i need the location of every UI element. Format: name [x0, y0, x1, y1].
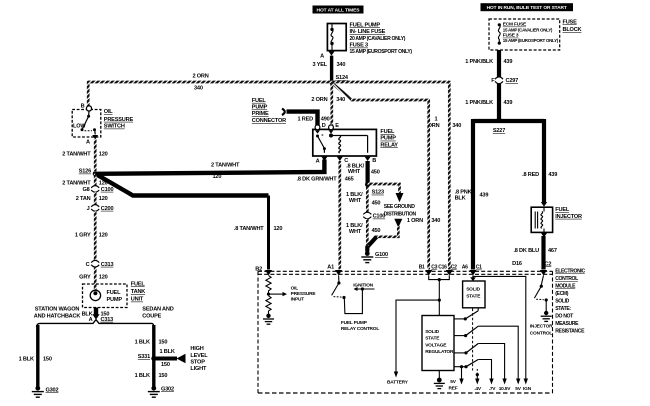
fuel injector terminal top: [541, 202, 547, 207]
fuse block dashed box: [489, 19, 560, 50]
svg-text:PUMP: PUMP: [380, 136, 396, 142]
svg-text:120: 120: [99, 196, 108, 202]
relay pin C: [337, 157, 348, 164]
fuel pump prime connector symbol: [252, 98, 286, 124]
svg-text:PUMP: PUMP: [252, 105, 268, 111]
ECM dashed border: [258, 271, 553, 393]
svg-text:CONTROL: CONTROL: [530, 331, 553, 337]
svg-text:450: 450: [371, 170, 380, 176]
ground G100: [361, 251, 388, 263]
svg-text:1 ORN: 1 ORN: [407, 218, 423, 224]
svg-text:PRIME: PRIME: [252, 111, 269, 117]
pin A of in-line fuse: [320, 51, 335, 59]
svg-text:S331: S331: [138, 354, 150, 360]
svg-text:C2: C2: [451, 264, 457, 270]
fuel injector: [531, 207, 552, 232]
svg-text:439: 439: [480, 192, 489, 198]
svg-text:OIL: OIL: [291, 285, 299, 291]
splice S124: [329, 75, 348, 85]
ECM pin B1/C16: [419, 264, 447, 275]
svg-text:COUPE: COUPE: [142, 313, 161, 319]
relay pin B: [365, 157, 377, 164]
svg-text:RELAY CONTROL: RELAY CONTROL: [341, 326, 379, 332]
svg-text:1 RED: 1 RED: [298, 117, 314, 123]
svg-text:C200: C200: [101, 206, 114, 212]
oil pressure input arrow and label: [269, 285, 317, 302]
svg-text:A: A: [86, 140, 90, 146]
svg-text:BATTERY: BATTERY: [387, 379, 409, 385]
fuel pump relay control label: [341, 320, 379, 332]
wire 2 ORN 340 S124 down to relay pin E: [311, 82, 345, 127]
svg-text:FUEL PUMP: FUEL PUMP: [341, 320, 368, 326]
svg-text:VOLTAGE: VOLTAGE: [425, 342, 447, 348]
svg-text:.8 RED: .8 RED: [522, 172, 539, 178]
svg-text:LIGHT: LIGHT: [190, 366, 207, 372]
wire 1 PNK/BLK 439 C297 to S227: [465, 84, 512, 121]
svg-text:2 ORN: 2 ORN: [193, 74, 209, 80]
fuel pump relay box: [313, 129, 377, 156]
fuse F1 labels: [350, 22, 413, 55]
ECM bottom output arrows and voltage labels: [474, 379, 531, 393]
svg-text:G100: G100: [375, 252, 388, 258]
svg-text:B: B: [372, 158, 376, 164]
svg-text:A: A: [89, 317, 93, 323]
svg-text:STATION WAGON: STATION WAGON: [35, 306, 80, 312]
svg-text:TANK: TANK: [131, 289, 145, 295]
svg-text:WHT: WHT: [349, 198, 362, 204]
ECM fuse labels: [503, 22, 559, 43]
connector C313 (C): [86, 260, 114, 267]
svg-text:ELECTRONIC: ELECTRONIC: [555, 269, 585, 275]
wire 2 TAN/WHT 120 S126 to C100: [62, 174, 107, 187]
svg-text:S124: S124: [336, 75, 349, 81]
wire 1 RED 490 prime connector to relay pin D: [287, 112, 330, 126]
ECM pin B2: [255, 266, 272, 275]
ECM pin C2: [446, 264, 457, 275]
relay internal coil E to B: [330, 134, 368, 153]
svg-text:WHT: WHT: [348, 169, 361, 175]
see ground distribution label: [384, 204, 417, 217]
wire .8 TAN/WHT S126 diagonal to ECM pin B2: [95, 174, 282, 270]
svg-text:467: 467: [548, 248, 557, 254]
svg-text:LOW: LOW: [73, 123, 86, 129]
relay internal switch D to A: [316, 135, 326, 153]
svg-text:S123: S123: [372, 190, 384, 196]
ground G302 left: [32, 386, 59, 397]
svg-text:IGNITION: IGNITION: [353, 283, 373, 289]
svg-text:465: 465: [345, 176, 354, 182]
wire 2 TAN 120 C100 to C200: [76, 192, 108, 205]
svg-text:D: D: [322, 123, 326, 129]
svg-text:FUEL: FUEL: [252, 98, 267, 104]
svg-text:.4V: .4V: [474, 386, 482, 392]
injector control label: [530, 323, 553, 336]
svg-text:1 BLK: 1 BLK: [135, 340, 150, 346]
svg-text:S227: S227: [493, 128, 505, 134]
svg-text:INPUT: INPUT: [291, 296, 305, 302]
ground distribution return arrow to G100: [367, 219, 402, 252]
svg-text:PUMP: PUMP: [107, 297, 123, 303]
svg-text:A1: A1: [327, 265, 334, 271]
regulator output switch 2: [454, 326, 518, 379]
splice S123: [365, 182, 384, 196]
svg-text:DISTRIBUTION: DISTRIBUTION: [384, 211, 417, 217]
solid state voltage regulator box: [422, 316, 454, 371]
svg-text:C100: C100: [101, 187, 114, 193]
svg-text:FUEL: FUEL: [380, 129, 395, 135]
svg-text:1 BLK: 1 BLK: [19, 357, 34, 363]
svg-text:HIGH: HIGH: [190, 346, 203, 352]
svg-text:439: 439: [504, 100, 513, 106]
svg-text:MODULE: MODULE: [555, 284, 576, 290]
wire 2 TAN/WHT 120 labels on S126 to relay A run: [211, 162, 240, 180]
oil pressure switch dashed box: [72, 110, 101, 138]
svg-text:2 TAN/WHT: 2 TAN/WHT: [62, 152, 91, 158]
svg-text:C313: C313: [101, 317, 114, 323]
svg-text:J: J: [87, 206, 90, 212]
regulator output switch 3: [454, 344, 505, 380]
svg-text:C16: C16: [438, 264, 447, 270]
svg-text:CONTROL: CONTROL: [555, 276, 578, 282]
svg-text:15 AMP (EUROSPORT ONLY): 15 AMP (EUROSPORT ONLY): [350, 49, 413, 55]
wire 1 BLK 150 S331 to high level stop light: [154, 349, 186, 368]
ECM internal ground below B2 resistor: [263, 314, 274, 325]
svg-text:10.5V: 10.5V: [499, 386, 512, 392]
wire 1 BLK 150 S331 to G302: [135, 373, 168, 379]
svg-text:LEVEL: LEVEL: [190, 353, 208, 359]
svg-text:B1: B1: [419, 265, 425, 271]
connector C100 (G8): [82, 186, 113, 193]
fuel injector terminal bottom: [541, 233, 547, 238]
svg-text:G302: G302: [161, 386, 174, 392]
svg-text:1 PNK/BLK: 1 PNK/BLK: [465, 100, 493, 106]
ECM right side label: [555, 269, 585, 335]
svg-text:IN- LINE FUSE: IN- LINE FUSE: [350, 29, 386, 35]
relay pin D: [315, 123, 326, 134]
svg-text:BLOCK: BLOCK: [563, 27, 582, 33]
ECM fuse symbol inside fuse block: [498, 23, 501, 45]
svg-text:PRESSURE: PRESSURE: [291, 291, 317, 297]
svg-text:FUEL: FUEL: [131, 281, 146, 287]
svg-text:2 TAN/WHT: 2 TAN/WHT: [211, 162, 240, 168]
svg-text:FUEL PUMP: FUEL PUMP: [350, 22, 381, 28]
svg-text:SWITCH: SWITCH: [104, 124, 125, 130]
svg-text:C1: C1: [476, 265, 482, 271]
svg-text:SEDAN AND: SEDAN AND: [142, 306, 173, 312]
svg-text:.8 DK GRN/WHT: .8 DK GRN/WHT: [297, 176, 338, 182]
svg-text:OIL: OIL: [104, 109, 114, 115]
connector C297: [491, 77, 518, 84]
splice S126: [79, 169, 98, 177]
svg-text:RELAY: RELAY: [380, 142, 398, 148]
wire .8 DK BLU 467 injector to ECM pin D16: [513, 236, 556, 270]
header label HOT IN RUN BULB TEST OR START: [481, 3, 574, 11]
svg-text:GRY: GRY: [79, 274, 91, 280]
svg-text:C313: C313: [101, 262, 114, 268]
svg-text:120: 120: [274, 226, 283, 232]
svg-text:SEE GROUND: SEE GROUND: [384, 204, 415, 210]
svg-text:C3: C3: [431, 264, 437, 270]
splice S227: [473, 117, 544, 134]
wire .8 RED 439 S227 to fuel injector: [522, 119, 557, 202]
svg-text:E: E: [335, 123, 339, 129]
svg-text:C: C: [86, 262, 90, 268]
svg-text:120: 120: [99, 152, 108, 158]
svg-text:S126: S126: [79, 169, 91, 175]
fuse block label: [563, 19, 582, 33]
svg-text:A6: A6: [462, 265, 468, 271]
wire A6 to IGN output: [473, 276, 526, 379]
wire 3 YEL 340 fuse to S124: [313, 56, 346, 83]
oil pressure switch pin B: [81, 103, 92, 111]
ECM pin A6/C1: [462, 265, 482, 276]
svg-text:1 GRY: 1 GRY: [75, 232, 91, 238]
fuel injector label: [555, 207, 582, 220]
battery arrow and label: [387, 372, 409, 386]
injector control internal ground: [541, 311, 552, 322]
svg-text:STATE: STATE: [425, 336, 440, 342]
svg-text:490: 490: [321, 117, 330, 123]
svg-text:20 AMP (CAVALIER ONLY): 20 AMP (CAVALIER ONLY): [350, 36, 406, 42]
svg-text:PRESSURE: PRESSURE: [104, 117, 134, 123]
wire .8 BLK/WHT 465 relay pin C to ECM pin A1: [340, 161, 365, 270]
ignition reference symbol: [353, 283, 374, 291]
ECM solid state box top right: [463, 281, 485, 308]
svg-text:REGULATOR: REGULATOR: [425, 349, 454, 355]
svg-text:.8 DK BLU: .8 DK BLU: [513, 248, 539, 254]
ECM oil pressure input resistor: [266, 275, 271, 314]
svg-text:450: 450: [372, 200, 381, 206]
svg-text:150: 150: [161, 362, 170, 368]
regulator internal ground: [434, 371, 445, 389]
svg-text:2 TAN/WHT: 2 TAN/WHT: [62, 181, 91, 187]
svg-text:FUSE: FUSE: [563, 19, 578, 25]
relay pin E: [329, 123, 340, 134]
svg-text:UNIT: UNIT: [131, 297, 144, 303]
svg-text:SOLID: SOLID: [425, 329, 439, 335]
wire 1 GRY 120 C200 to C313: [75, 211, 108, 261]
svg-text:340: 340: [452, 123, 461, 129]
svg-text:150: 150: [43, 357, 52, 363]
svg-text:REF: REF: [449, 386, 458, 392]
svg-text:RESISTANCE: RESISTANCE: [555, 329, 585, 335]
svg-text:BLK: BLK: [455, 196, 466, 202]
splice S331: [138, 354, 157, 361]
wire 2 ORN 340 horizontal S124 to oil pressure switch: [88, 74, 332, 107]
svg-text:120: 120: [99, 232, 108, 238]
wire 1 BLK/WHT 450 S123 to C100: [346, 187, 380, 213]
wire 1 BLK/WHT 450 C100 to G100: [346, 219, 380, 246]
svg-text:340: 340: [336, 97, 345, 103]
fuel tank unit labels: [131, 281, 146, 302]
svg-text:HOT IN RUN, BULB TEST OR START: HOT IN RUN, BULB TEST OR START: [487, 5, 567, 11]
fuel pump motor symbol: [90, 290, 122, 303]
svg-text:3 YEL: 3 YEL: [313, 62, 328, 68]
svg-text:IGN: IGN: [523, 386, 532, 392]
svg-text:450: 450: [372, 228, 381, 234]
svg-text:2 TAN: 2 TAN: [76, 196, 91, 202]
svg-text:STATE: STATE: [466, 294, 481, 300]
oil pressure switch pin A: [86, 135, 98, 146]
wire 1 PNK/BLK 439 fuse block to C297: [465, 50, 512, 77]
wire 450 relay pin B to S123: [368, 161, 380, 185]
svg-text:15 AMP (CAVALIER ONLY): 15 AMP (CAVALIER ONLY): [503, 27, 553, 32]
svg-text:150: 150: [159, 373, 168, 379]
svg-text:.7V: .7V: [489, 386, 497, 392]
svg-text:SOLID: SOLID: [466, 287, 480, 293]
svg-text:340: 340: [194, 85, 203, 91]
fuse F1 fuel pump in-line fuse box: [327, 24, 346, 51]
ECM battery and regulator feed wires from C16 and C2 pins: [396, 275, 449, 372]
svg-text:DO NOT: DO NOT: [555, 314, 574, 320]
oil pressure switch internal contacts: [73, 111, 96, 135]
svg-text:C100: C100: [373, 214, 386, 220]
svg-text:120: 120: [213, 174, 222, 180]
bracket junction station wagon / sedan split: [37, 320, 154, 327]
svg-text:HOT AT ALL TIMES: HOT AT ALL TIMES: [317, 7, 361, 13]
ECM pin A1: [327, 265, 342, 276]
svg-text:1: 1: [435, 117, 438, 123]
svg-text:1 BLK: 1 BLK: [160, 349, 175, 355]
svg-text:FUSE 3: FUSE 3: [350, 43, 368, 49]
regulator output switch 1: [454, 308, 478, 321]
fuel tank unit dashed box: [83, 284, 128, 308]
svg-text:FUEL: FUEL: [107, 290, 122, 296]
svg-text:340: 340: [431, 218, 440, 224]
ground G302 right: [148, 386, 174, 397]
wire 2 TAN/WHT 120 switch A to S126: [62, 139, 107, 171]
wire 1 BLK 150 left drop to G302: [19, 325, 52, 387]
svg-text:A: A: [316, 159, 320, 165]
svg-text:FUEL: FUEL: [555, 207, 570, 213]
svg-text:STATE:: STATE:: [555, 306, 571, 312]
svg-text:340: 340: [337, 62, 346, 68]
svg-text:C2: C2: [545, 261, 552, 267]
svg-text:1 PNK/BLK: 1 PNK/BLK: [465, 59, 493, 65]
wire GRY 120 C313 to fuel pump: [79, 267, 107, 290]
svg-text:A: A: [320, 53, 324, 59]
connector C200 (J): [87, 205, 114, 212]
svg-text:(ECM): (ECM): [555, 291, 569, 297]
svg-text:WHT: WHT: [349, 229, 362, 235]
5V REF output from switch 4 feed: [449, 365, 464, 392]
svg-text:MEASURE: MEASURE: [555, 321, 579, 327]
svg-text:G8: G8: [82, 187, 89, 193]
wire S123 branch to ground distribution arrow: [368, 184, 404, 202]
svg-text:.8 TAN/WHT: .8 TAN/WHT: [234, 226, 264, 232]
svg-text:D16: D16: [512, 261, 522, 267]
header label HOT AT ALL TIMES: [313, 6, 364, 14]
svg-text:AND HATCHBACK: AND HATCHBACK: [34, 313, 81, 319]
svg-text:120: 120: [99, 181, 108, 187]
oil pressure switch labels: [104, 109, 134, 129]
svg-text:150: 150: [159, 340, 168, 346]
svg-text:439: 439: [548, 172, 557, 178]
svg-text:G302: G302: [46, 387, 59, 393]
wire A6 pin into solid state box: [470, 275, 476, 281]
wire 1 ORN 340 S124 right to C2 drop: [332, 81, 461, 270]
regulator output switch 4: [454, 360, 492, 380]
svg-text:CONNECTOR: CONNECTOR: [252, 118, 286, 124]
ECM pin D16/C2: [512, 261, 551, 276]
svg-text:STOP: STOP: [190, 360, 205, 366]
svg-text:INJECTOR: INJECTOR: [555, 214, 582, 220]
svg-text:439: 439: [504, 59, 513, 65]
ECM fuel pump relay control switch at A1: [332, 275, 363, 313]
wire 1 BLK 150 right drop to S331: [135, 325, 168, 387]
svg-text:SOLID: SOLID: [555, 299, 569, 305]
wire 1 ORN 340 S124 diagonal to C16 drop: [332, 83, 440, 270]
relay pin A: [316, 157, 328, 165]
svg-text:1 BLK: 1 BLK: [135, 373, 150, 379]
svg-text:15 AMP (EUROSPORT ONLY): 15 AMP (EUROSPORT ONLY): [503, 38, 559, 43]
switch gang dashed link: [473, 309, 479, 380]
high level stop light label: [190, 346, 208, 372]
svg-text:B2: B2: [255, 266, 262, 272]
ECM injector control switch at D16: [534, 275, 547, 311]
svg-text:B: B: [81, 103, 85, 109]
svg-text:INJECTOR: INJECTOR: [530, 323, 553, 329]
wire .8 PNK/BLK 439 S227 to ECM pin A6: [455, 119, 489, 270]
body style labels: [34, 306, 174, 319]
svg-text:C297: C297: [506, 78, 519, 84]
svg-text:.8 PNK/: .8 PNK/: [455, 189, 474, 195]
wire BLK 150 pump to C313 A: [82, 308, 114, 323]
fuel pump relay labels: [380, 129, 398, 148]
svg-text:120: 120: [99, 274, 108, 280]
wire .8 DK GRN/WHT relay pin A to splice S126: [96, 160, 337, 183]
svg-text:2 ORN: 2 ORN: [311, 97, 327, 103]
connector C100 lower: [363, 212, 385, 219]
